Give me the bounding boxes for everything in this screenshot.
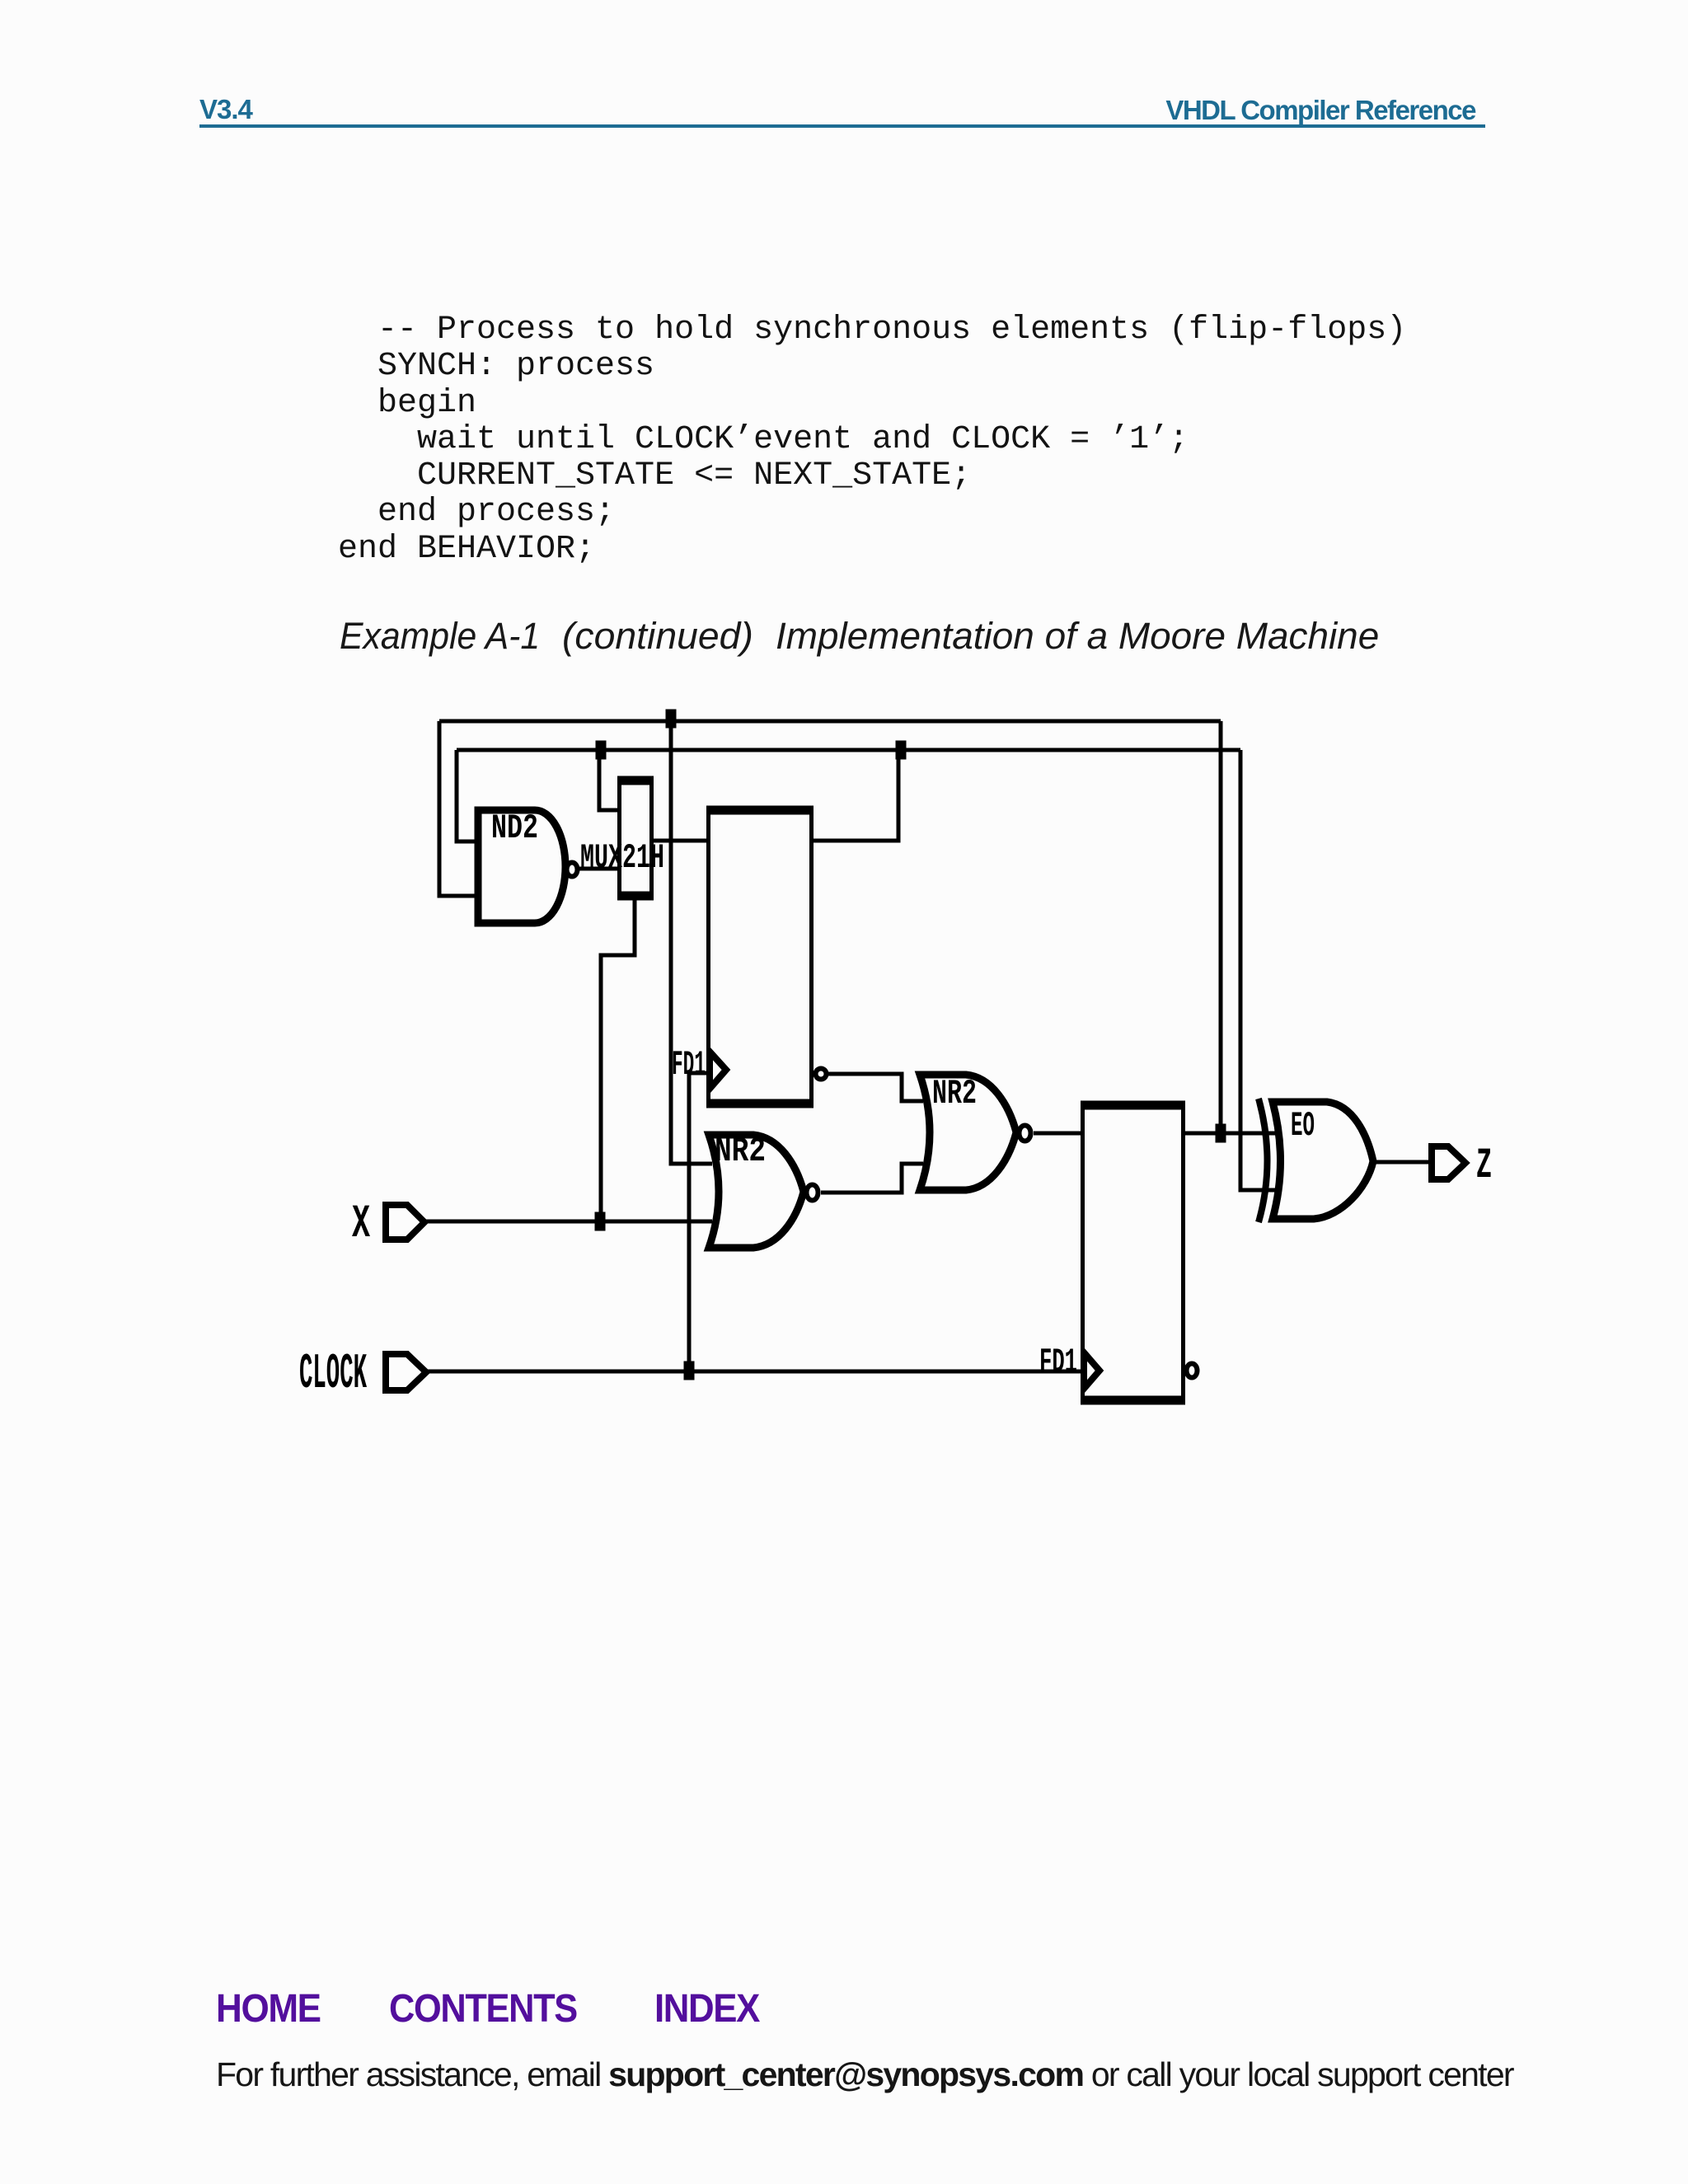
wire drop to ND2 input A <box>457 750 477 841</box>
FD1 thick top edge <box>706 806 814 815</box>
FD2 QN output bubble <box>1187 1364 1198 1378</box>
header left V3.4 <box>199 96 252 123</box>
svg-text:ND2: ND2 <box>491 808 538 848</box>
xor gate EO body <box>1273 1102 1373 1219</box>
mux U1 MUX21H body <box>620 780 652 896</box>
output port arrow Z <box>1432 1146 1465 1179</box>
nor gate NR2a body <box>709 1135 804 1248</box>
nor gate NR2b body <box>920 1075 1016 1190</box>
FD2 thick top edge <box>1081 1101 1185 1110</box>
NR2b output bubble <box>1020 1126 1031 1141</box>
svg-text:NR2: NR2 <box>932 1074 977 1113</box>
xor gate EO extra input arc <box>1259 1099 1268 1222</box>
FD1 QN output bubble <box>816 1069 827 1080</box>
junction X/select <box>595 1212 606 1231</box>
footer nav HOME <box>216 1990 321 2029</box>
ND2 output bubble <box>567 863 578 877</box>
wire X input <box>426 1220 712 1224</box>
junction FD2 Q/wire1 <box>1216 1124 1226 1143</box>
input port arrow X <box>386 1205 424 1240</box>
FD2 thick bottom edge <box>1081 1396 1185 1405</box>
junction wire2/FD1 Q <box>896 741 907 760</box>
wire CLOCK riser to FD1 CP <box>689 1073 709 1371</box>
schematic svg placeholder <box>288 692 1525 1442</box>
wire CLOCK input <box>426 1370 1084 1374</box>
FD1 clock triangle <box>710 1052 726 1089</box>
wire MUX21H select from X <box>601 898 635 1221</box>
svg-text:NR2: NR2 <box>715 1132 766 1171</box>
footer nav CONTENTS <box>389 1990 577 2029</box>
input port arrow CLOCK <box>386 1354 426 1390</box>
svg-text:X: X <box>352 1198 371 1251</box>
wire NR2a output to NR2b input B <box>821 1164 923 1193</box>
header rule <box>199 124 1485 128</box>
wire MUX21H output to FD1 D <box>653 839 709 843</box>
caption <box>340 617 540 654</box>
junction wire1/NR2a <box>666 710 677 729</box>
header right title <box>1165 96 1475 124</box>
wire drop to NR2a input A <box>671 721 712 1164</box>
svg-text:EO: EO <box>1291 1106 1315 1146</box>
footer assistance line <box>216 2058 1513 2092</box>
FD2 clock triangle <box>1084 1352 1100 1389</box>
junction wire2/MUX <box>596 741 607 760</box>
wire FD1 Q output <box>813 750 898 841</box>
wire net CURRENT_STATE0 feedback <box>457 748 1240 752</box>
footer nav INDEX <box>654 1990 759 2029</box>
mux MUX21H thick top edge <box>617 776 654 785</box>
flip-flop FD2 body <box>1083 1105 1184 1400</box>
wire drop to EO input A <box>1219 721 1223 1133</box>
svg-text:MUX21H: MUX21H <box>580 838 664 878</box>
flip-flop FD1 body <box>709 810 812 1104</box>
NR2a output bubble <box>807 1185 818 1201</box>
wire FD2 Q to EO <box>1184 1132 1282 1136</box>
mux MUX21H thick bottom edge <box>617 892 654 901</box>
svg-text:CLOCK: CLOCK <box>299 1347 367 1403</box>
code block <box>338 312 1406 568</box>
wire drop to EO input B <box>1240 750 1280 1190</box>
wire net CURRENT_STATE1 feedback top <box>439 719 1221 724</box>
junction CLOCK/FD1 CP <box>684 1361 695 1380</box>
wire EO output to Z <box>1372 1160 1432 1165</box>
wire ND2 output to MUX21H input B <box>577 867 621 871</box>
wire drop to ND2 input B <box>439 721 477 896</box>
wire drop to MUX21H input A <box>599 750 621 810</box>
svg-text:FD1: FD1 <box>672 1045 706 1085</box>
wire FD1 QN to NR2b input A <box>828 1074 923 1101</box>
nand gate ND2 <box>478 810 565 923</box>
FD1 thick bottom edge <box>706 1099 814 1108</box>
svg-text:Z: Z <box>1476 1141 1492 1190</box>
wire NR2b output to FD2 D <box>1034 1132 1084 1136</box>
svg-text:FD1: FD1 <box>1039 1343 1077 1382</box>
